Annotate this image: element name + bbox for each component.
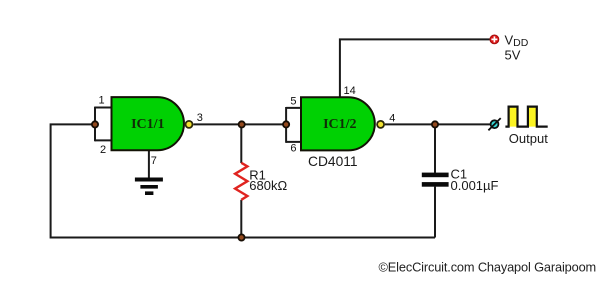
svg-text:CD4011: CD4011	[308, 154, 358, 169]
svg-text:©ElecCircuit.com Chayapol Gara: ©ElecCircuit.com Chayapol Garaipoom	[379, 260, 597, 275]
svg-text:3: 3	[197, 112, 203, 124]
svg-text:0.001µF: 0.001µF	[451, 178, 499, 193]
svg-text:6: 6	[290, 143, 296, 155]
svg-text:4: 4	[389, 113, 395, 125]
svg-text:IC1/1: IC1/1	[131, 117, 164, 132]
svg-text:7: 7	[151, 155, 157, 167]
svg-text:1: 1	[98, 95, 104, 107]
svg-text:5V: 5V	[505, 47, 521, 62]
svg-text:Output: Output	[509, 131, 548, 146]
svg-text:680kΩ: 680kΩ	[249, 178, 287, 193]
svg-text:2: 2	[100, 144, 106, 156]
svg-text:14: 14	[344, 85, 356, 97]
svg-text:5: 5	[290, 95, 296, 107]
svg-text:IC1/2: IC1/2	[323, 117, 356, 132]
